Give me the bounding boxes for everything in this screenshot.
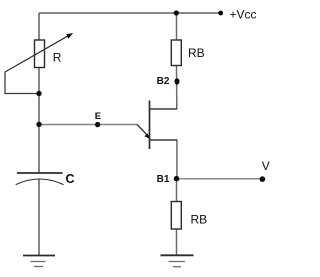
transistor Q1 emitter with arrow [137,125,150,139]
transistor Q1 UJT base bar [149,101,151,150]
junction dot top rail / RB column [174,10,179,15]
svg-text:R: R [53,51,62,65]
wire B1 node down to RB bottom [176,179,178,202]
wire left vertical (capacitor to ground) [38,179,40,255]
wire B2 column: top rail junction down to RB [176,13,178,40]
wire B1 column: transistor B1 lead corner down to B1 node [176,140,178,179]
resistor RB (lower) body [171,202,181,230]
svg-text:E: E [95,111,101,122]
svg-text:RB: RB [188,46,205,60]
node B1 dot [174,176,180,182]
svg-text:B2: B2 [157,76,170,87]
wire B1 node to V terminal [177,178,263,180]
wire emitter horizontal from left vertical to transistor [39,124,138,126]
node B2 dot [175,78,180,84]
transistor Q1 B2 lead [150,108,178,110]
junction dot emitter wire / left vertical [36,122,41,127]
transistor Q1 B1 lead [150,139,178,141]
wire left vertical (top rail down to R) [38,13,40,40]
resistor R body [35,40,45,68]
svg-text:C: C [66,172,75,186]
wire left vertical (R bottom through junctions down to capacitor) [38,68,40,174]
resistor R arrow (variable) [5,33,73,72]
terminal +Vcc dot [218,11,223,16]
capacitor C curved bottom plate [16,179,64,185]
svg-text:+Vcc: +Vcc [230,7,257,21]
wire B2 column: RB bottom to B2 node to transistor B2 lead corner [176,66,178,110]
svg-text:V: V [262,159,270,173]
ground right [161,255,194,266]
terminal V dot [260,176,266,182]
svg-text:B1: B1 [157,174,170,185]
wire RB bottom to right ground [176,229,178,255]
node E dot [95,122,100,127]
junction dot wiper return / left vertical [36,91,41,96]
wire top rail from left vertical to +Vcc terminal [39,12,221,14]
resistor RB (upper) body [171,40,181,66]
svg-text:RB: RB [191,212,208,226]
ground left [23,256,55,267]
wire R wiper return (arrow base down and across to node) [5,72,39,94]
capacitor C top plate [17,172,63,174]
